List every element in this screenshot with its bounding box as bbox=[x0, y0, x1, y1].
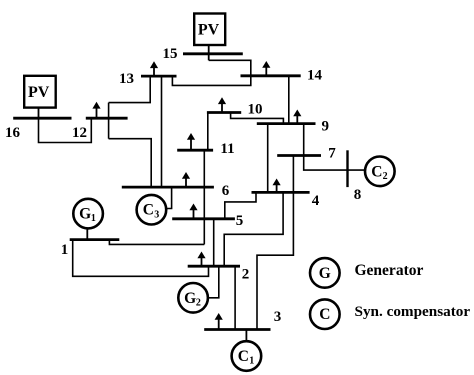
wire bus 3 to C1 bbox=[245, 330, 247, 341]
syn. compensator C1 bbox=[232, 341, 262, 371]
svg-text:Syn. compensator: Syn. compensator bbox=[355, 303, 471, 320]
svg-text:14: 14 bbox=[307, 68, 323, 84]
svg-text:Generator: Generator bbox=[355, 262, 424, 279]
svg-text:2: 2 bbox=[383, 171, 388, 182]
wire bus 10 to bus 11 bbox=[207, 113, 209, 151]
wire junction vertical at bus 12 bbox=[108, 103, 110, 139]
bus 5 bbox=[172, 217, 235, 220]
svg-text:C: C bbox=[143, 202, 154, 219]
load arrow bus 14 bbox=[262, 61, 270, 75]
svg-text:5: 5 bbox=[236, 213, 244, 229]
wire bus 4 to bus 5 bbox=[225, 192, 256, 218]
wire bus 2 to bus 3 bbox=[234, 266, 236, 329]
bus 2 bbox=[188, 265, 240, 268]
PV box at bus 16 bbox=[24, 76, 56, 108]
svg-text:2: 2 bbox=[242, 267, 250, 283]
svg-text:PV: PV bbox=[198, 21, 220, 38]
svg-text:G: G bbox=[184, 290, 196, 307]
svg-text:6: 6 bbox=[222, 183, 230, 199]
svg-text:1: 1 bbox=[91, 213, 96, 224]
svg-text:13: 13 bbox=[119, 71, 134, 87]
load arrow bus 3 bbox=[215, 313, 223, 329]
svg-text:8: 8 bbox=[354, 187, 362, 203]
legend generator symbol bbox=[310, 258, 340, 288]
wire bus 13 to bus 6 bbox=[161, 76, 163, 187]
legend syn. compensator symbol bbox=[310, 299, 340, 329]
bus 7 bbox=[277, 154, 321, 157]
svg-text:PV: PV bbox=[28, 84, 50, 101]
svg-text:2: 2 bbox=[196, 297, 201, 308]
bus 3 bbox=[204, 328, 270, 331]
wire bus 2 to bus 5 bbox=[213, 219, 215, 267]
PV box at bus 15 bbox=[194, 14, 225, 46]
load arrow bus 12 bbox=[92, 102, 100, 118]
bus 16 bbox=[13, 117, 71, 120]
svg-text:G: G bbox=[319, 265, 331, 282]
wire bus 4 to bus 2 bbox=[224, 192, 283, 266]
bus 9 bbox=[257, 122, 316, 125]
syn. compensator C3 bbox=[137, 195, 167, 225]
wire PV to bus 15 bbox=[208, 45, 210, 60]
bus 15 bbox=[183, 52, 243, 55]
syn. compensator C2 bbox=[365, 157, 395, 187]
svg-text:12: 12 bbox=[72, 125, 87, 141]
wire bus 14 to bus 9 bbox=[288, 76, 290, 124]
svg-text:G: G bbox=[79, 206, 91, 223]
wire bus 12 to bus 6 bbox=[109, 139, 152, 187]
wire C3 to bus 6 bbox=[167, 187, 172, 208]
bus 4 bbox=[252, 191, 310, 194]
wire bus 4 to bus 3 bbox=[257, 192, 293, 329]
svg-text:16: 16 bbox=[5, 125, 21, 141]
bus 12 bbox=[86, 117, 128, 120]
svg-text:15: 15 bbox=[163, 46, 178, 62]
wire bus 12 to bus 13 bbox=[109, 76, 151, 103]
load arrow bus 10 bbox=[218, 97, 226, 112]
bus 6 bbox=[122, 186, 214, 189]
svg-text:7: 7 bbox=[328, 146, 336, 162]
svg-text:9: 9 bbox=[322, 119, 330, 135]
svg-text:C: C bbox=[319, 306, 330, 323]
generator G2 bbox=[178, 283, 208, 313]
load arrow bus 9 bbox=[293, 110, 301, 124]
wire bus 7 to bus 4 (continues as 4-3 below) bbox=[292, 156, 294, 193]
wire PV to bus 16 bbox=[38, 108, 40, 119]
svg-text:1: 1 bbox=[61, 242, 69, 258]
load arrow bus 2 bbox=[197, 252, 205, 266]
svg-text:11: 11 bbox=[220, 141, 234, 157]
bus 1 bbox=[70, 238, 120, 241]
load arrow bus 11 bbox=[187, 133, 195, 150]
svg-text:3: 3 bbox=[274, 309, 282, 325]
bus 13 bbox=[141, 75, 177, 78]
wire bus 10 to bus 9 bbox=[231, 113, 284, 124]
load arrow bus 13 bbox=[150, 61, 158, 75]
wire bus 16 to bus 12 bbox=[39, 118, 92, 142]
wire bus 13 to bus 14 / bus 15 tap bbox=[172, 60, 250, 85]
wire G2 to bus 2 bbox=[209, 266, 219, 298]
bus 14 bbox=[241, 74, 301, 77]
bus 10 bbox=[207, 111, 241, 114]
wire bus 9 to bus 4 bbox=[267, 124, 269, 193]
svg-text:1: 1 bbox=[249, 356, 254, 367]
generator G1 bbox=[73, 199, 103, 229]
wire bus 1 to bus 2 bbox=[73, 240, 209, 277]
load arrow bus 5 bbox=[189, 204, 197, 218]
svg-text:C: C bbox=[238, 348, 249, 365]
load arrow bus 4 bbox=[273, 179, 281, 192]
wire bus 11 - bus 6 - bus 5 - to wire 1-5 bbox=[203, 150, 205, 244]
svg-text:3: 3 bbox=[154, 209, 159, 220]
bus 8 (vertical bar) bbox=[346, 150, 348, 187]
svg-text:C: C bbox=[371, 163, 382, 180]
svg-text:10: 10 bbox=[248, 102, 263, 118]
bus 11 bbox=[177, 149, 213, 152]
wire bus 9 to bus 7 and to bus 8 bbox=[304, 124, 365, 171]
wire bus 1 to bus 5 bbox=[109, 240, 204, 245]
svg-text:4: 4 bbox=[312, 193, 320, 209]
load arrow bus 6 bbox=[182, 172, 190, 186]
wire G1 to bus 1 bbox=[86, 229, 88, 240]
